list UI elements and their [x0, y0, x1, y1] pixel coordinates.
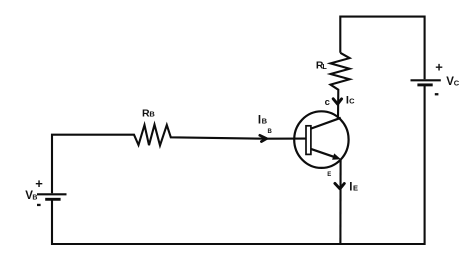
svg-text:+: + [35, 176, 43, 191]
svg-text:C: C [349, 97, 355, 106]
svg-text:c: c [325, 97, 330, 108]
svg-text:C: C [454, 78, 460, 87]
svg-text:L: L [323, 64, 328, 71]
svg-text:B: B [32, 195, 37, 202]
svg-text:B: B [268, 129, 273, 135]
svg-text:E: E [353, 184, 358, 193]
svg-text:E: E [327, 172, 331, 178]
svg-text:+: + [435, 59, 443, 74]
svg-text:B: B [262, 117, 268, 126]
svg-text:B: B [149, 110, 155, 119]
